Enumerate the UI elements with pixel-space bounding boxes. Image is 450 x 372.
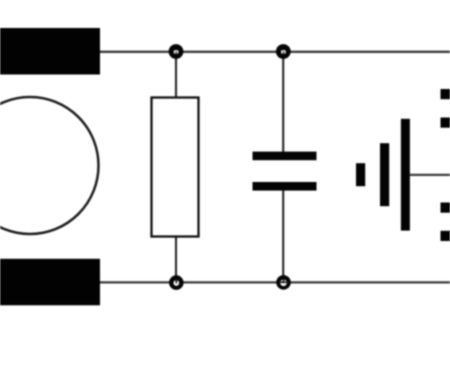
wire capacitor bottom lead: [282, 189, 284, 282]
electrode bar 2 (medium): [380, 143, 389, 206]
AC source V1 (circle, cropped at left edge): [0, 97, 99, 234]
junction node bottom-left: [169, 275, 184, 290]
dashed electrode segment 3: [441, 203, 450, 213]
capacitor C1 bottom plate: [253, 182, 317, 191]
dashed electrode segment 4: [441, 231, 450, 241]
dashed electrode segment 1: [441, 89, 450, 99]
terminal block lower-left (cropped): [0, 259, 100, 306]
junction node top-left: [169, 44, 184, 59]
wire top rail: [100, 51, 450, 53]
electrode bar 1 (short): [356, 163, 365, 186]
resistor R1 (rectangle body): [152, 98, 199, 237]
wire resistor top lead: [175, 52, 177, 98]
terminal block upper-left (cropped): [0, 28, 100, 75]
wire bottom rail: [100, 281, 450, 283]
junction node top-right: [276, 44, 291, 59]
electrode bar 3 (tall): [401, 119, 410, 231]
capacitor C1 top plate: [253, 152, 317, 161]
dashed electrode segment 2: [441, 118, 450, 128]
wire capacitor top lead: [282, 52, 284, 153]
wire right lead: [410, 174, 450, 176]
wire resistor bottom lead: [175, 236, 177, 282]
junction node bottom-right: [276, 275, 291, 290]
